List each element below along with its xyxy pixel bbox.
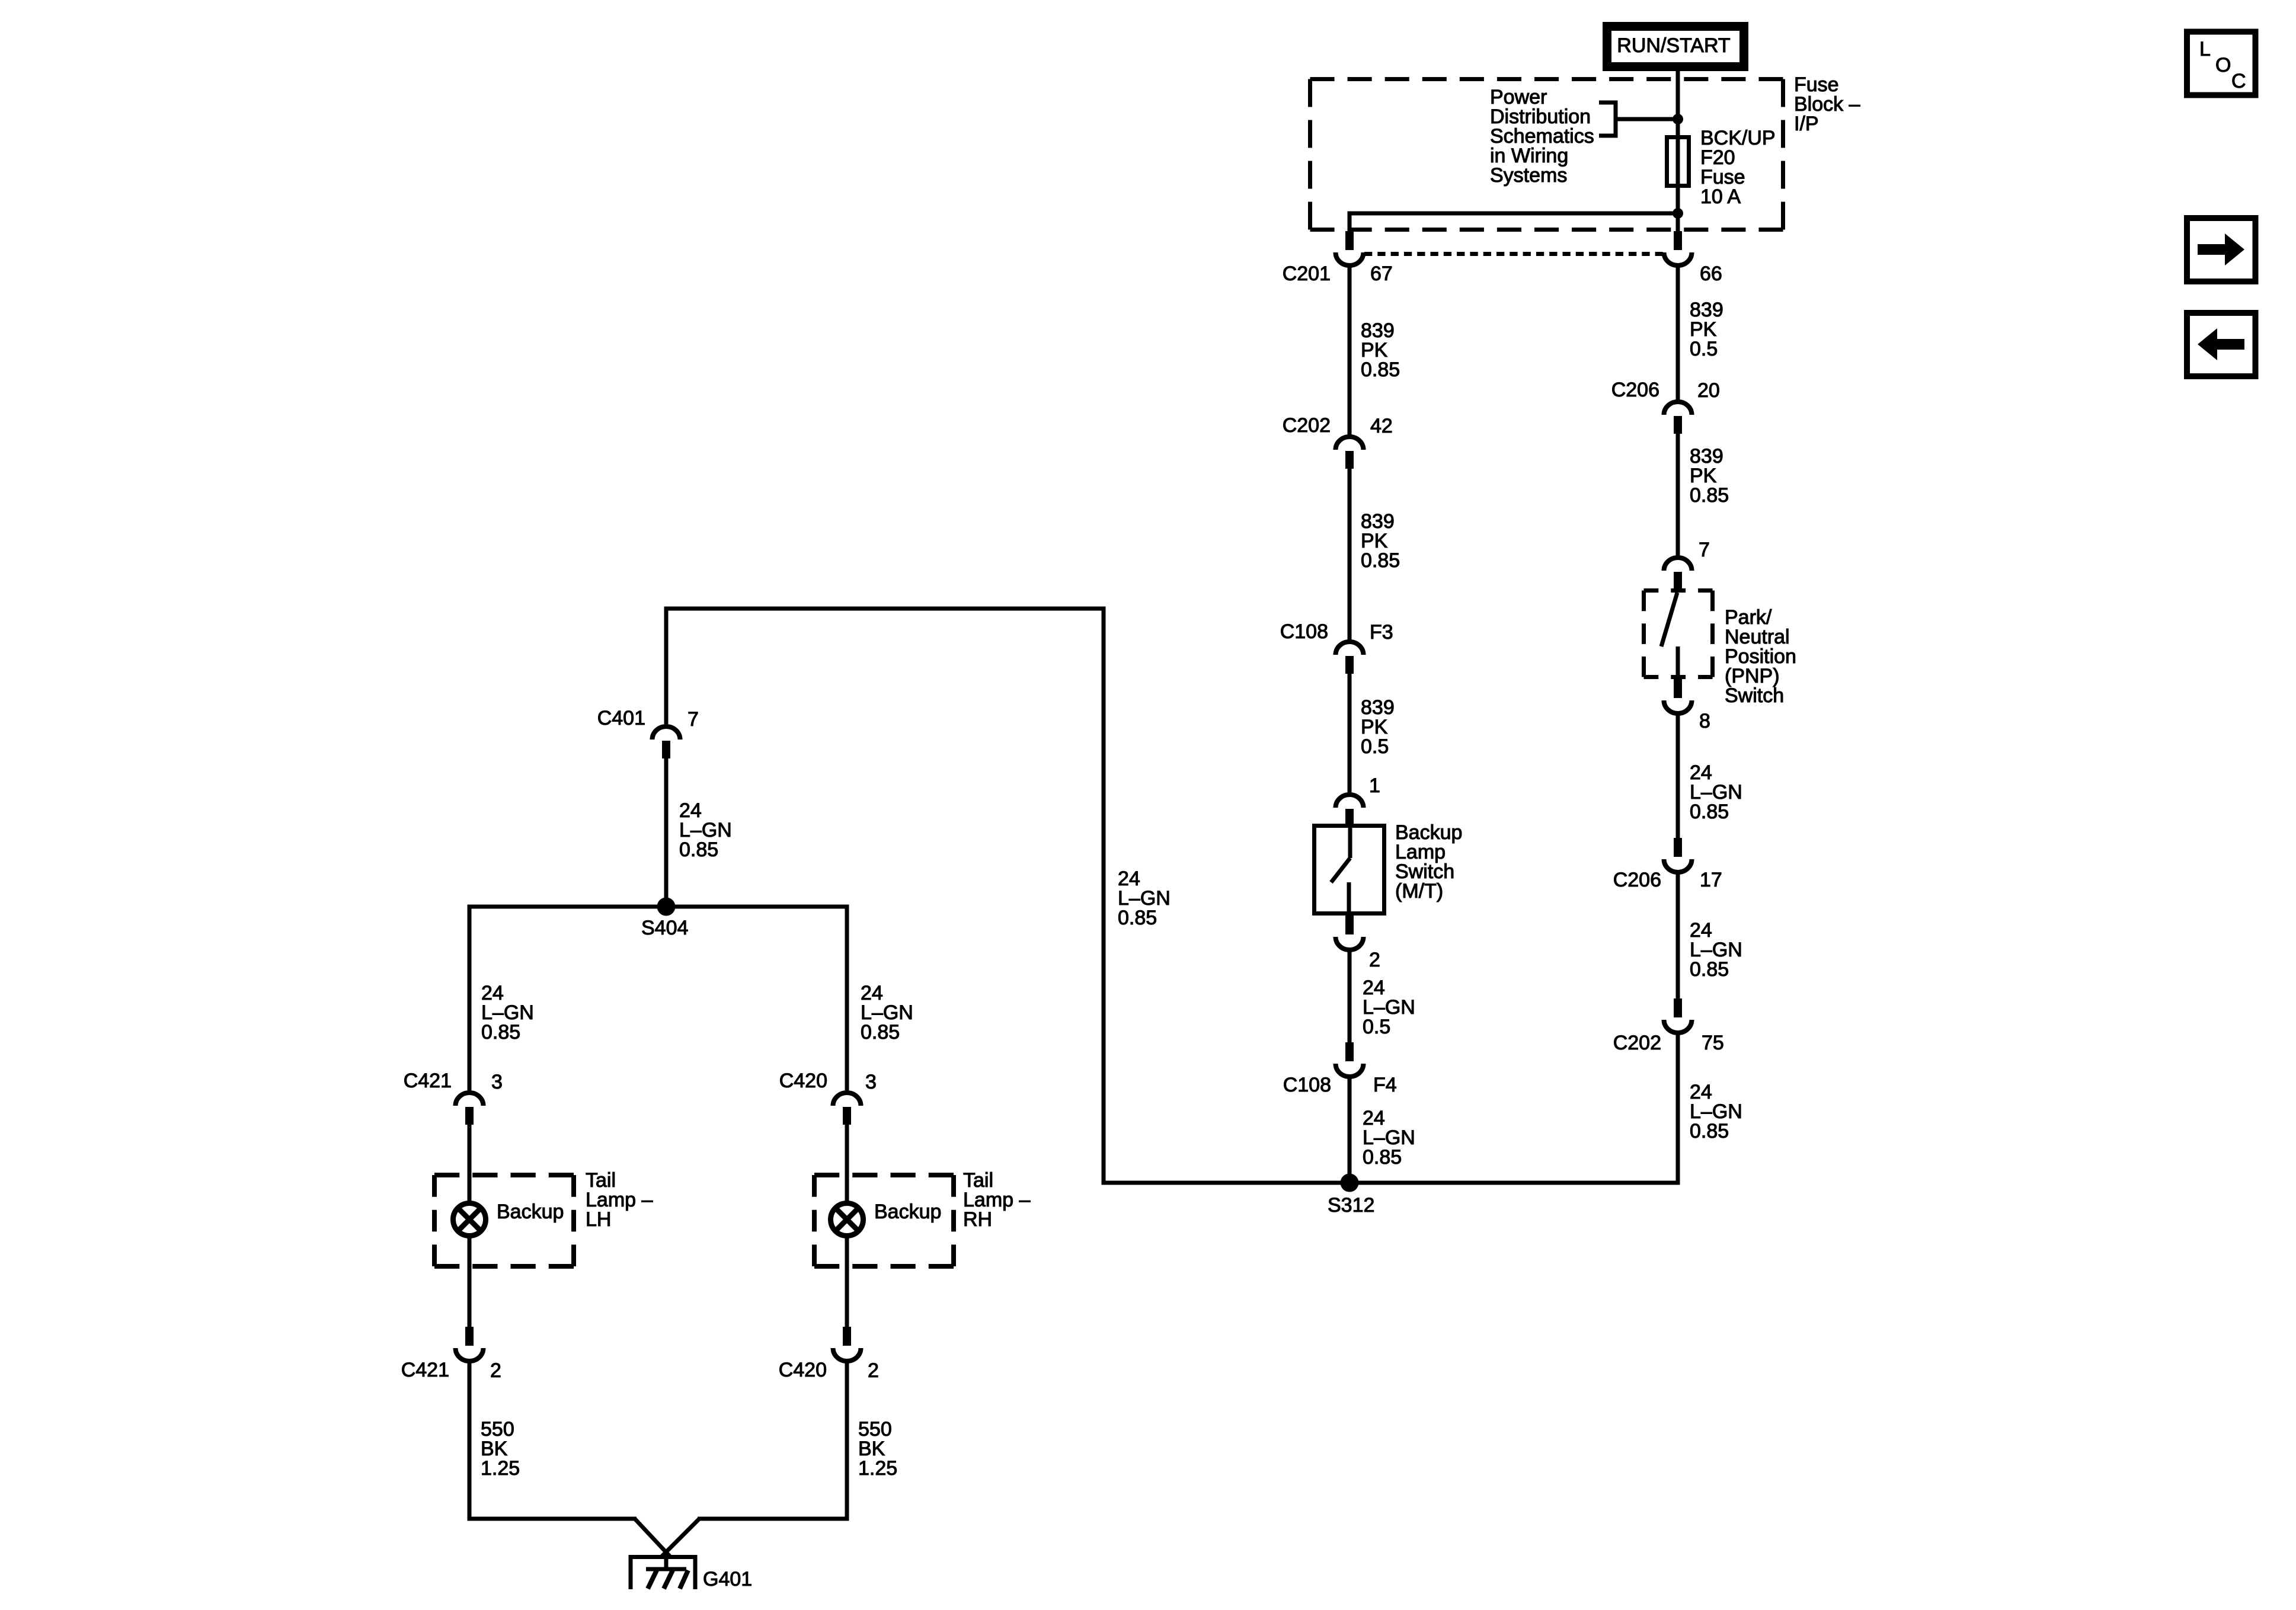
svg-text:10 A: 10 A [1700, 185, 1741, 208]
wire LH lamp to C421-2 [468, 1236, 472, 1327]
connector C108 pin F3 [1336, 642, 1364, 674]
wire label 839 PK 0.5 [1361, 696, 1395, 758]
wire to RH lamp [845, 1125, 849, 1203]
svg-text:20: 20 [1697, 379, 1720, 402]
Power Distribution Schematics note [1490, 86, 1594, 187]
lamp LH cross stroke 1 [458, 1208, 481, 1231]
connector C201 pin 67 [1336, 231, 1364, 265]
svg-text:Backup: Backup [497, 1201, 564, 1223]
svg-text:C421: C421 [404, 1070, 452, 1092]
connector C202 pin 42 [1336, 437, 1364, 469]
backup lamp switch box [1315, 826, 1384, 914]
svg-text:1.25: 1.25 [481, 1457, 520, 1480]
connector C421 pin 2 [456, 1327, 484, 1361]
connector PNP pin 8 [1664, 679, 1692, 713]
connector C201 pin 66 [1664, 231, 1692, 265]
tail lamp LH dashed box bottom edge [434, 1264, 574, 1269]
wire down to C401 [664, 609, 669, 724]
wire label 24 L-GN 0.85 [481, 982, 534, 1044]
ground hatch bar [646, 1567, 686, 1571]
connector C420 pin 2 [833, 1327, 861, 1361]
svg-text:F3: F3 [1370, 621, 1393, 644]
wire drop to C201 pin 67 [1348, 212, 1352, 232]
wire label 24 L-GN 0.85 [1690, 919, 1742, 981]
connector C206 pin 17 [1664, 838, 1692, 872]
junction dot at feed [1673, 114, 1683, 124]
svg-text:0.5: 0.5 [1361, 735, 1389, 758]
wire label 839 PK 0.85 [1361, 319, 1400, 381]
svg-text:0.5: 0.5 [1690, 338, 1718, 360]
wire label 839 PK 0.85 [1361, 510, 1400, 572]
wire from RUN/START down to fuse [1676, 71, 1680, 213]
LH diagonal to ground [635, 1519, 670, 1556]
connector C202 pin 75 [1664, 998, 1692, 1033]
svg-text:G401: G401 [703, 1568, 752, 1590]
wire to LH lamp [468, 1125, 472, 1203]
arrow box right [2187, 218, 2256, 281]
wire label 24 L-GN 0.85 [1690, 1081, 1742, 1142]
svg-text:LH: LH [586, 1208, 611, 1231]
wire fuse output horizontal [1350, 212, 1678, 216]
connector C206 pin 20 [1664, 402, 1692, 434]
PNP switch lower contact [1676, 646, 1680, 679]
wire 66 to C206-20 [1676, 263, 1680, 401]
wire 75 down to S312 run [1676, 1030, 1680, 1185]
svg-text:7: 7 [1699, 539, 1710, 561]
bottom LH horizontal wire [468, 1517, 637, 1521]
connector C420 pin 3 [833, 1093, 861, 1125]
LOC reference box [2187, 32, 2256, 95]
ground bracket right leg [693, 1555, 698, 1589]
wire label 839 PK 0.5 [1690, 299, 1723, 360]
ground center stub [664, 1555, 669, 1570]
svg-text:0.85: 0.85 [861, 1021, 900, 1044]
svg-text:O: O [2215, 54, 2231, 76]
connector C108 pin F4 [1336, 1042, 1364, 1077]
RUN/START ignition feed box [1607, 27, 1744, 67]
svg-text:C202: C202 [1613, 1032, 1661, 1054]
svg-text:C201: C201 [1283, 263, 1331, 285]
wire label 24 L-GN 0.85 [861, 982, 913, 1044]
wire label 839 PK 0.85 [1690, 445, 1729, 507]
Backup Lamp Switch label [1395, 821, 1462, 902]
svg-text:17: 17 [1700, 869, 1722, 891]
connector switch pin 1 [1336, 795, 1364, 827]
junction dot below fuse [1673, 208, 1683, 219]
arrow left glyph [2198, 328, 2244, 360]
connector C201 dotted tie line [1364, 252, 1663, 256]
fuse block dashed box right edge [1781, 79, 1785, 230]
wire F4 to S312 [1348, 1074, 1352, 1183]
svg-text:Switch: Switch [1725, 684, 1784, 707]
svg-text:2: 2 [1369, 949, 1380, 971]
fuse block dashed box left edge [1308, 79, 1312, 230]
svg-text:S404: S404 [641, 917, 688, 939]
svg-text:0.85: 0.85 [1690, 958, 1729, 981]
ground hatch stroke 2 [664, 1570, 673, 1589]
svg-text:S312: S312 [1328, 1194, 1374, 1217]
svg-text:66: 66 [1700, 263, 1722, 285]
svg-text:0.85: 0.85 [1690, 801, 1729, 823]
fuse block dashed box bottom edge [1310, 228, 1783, 232]
connector C421 pin 3 [456, 1093, 484, 1125]
lamp RH cross stroke 1 [836, 1208, 859, 1231]
fuse label BCK/UP F20 Fuse 10 A [1700, 127, 1776, 208]
connector switch pin 2 [1336, 916, 1364, 950]
svg-text:C108: C108 [1283, 1074, 1331, 1096]
wire bracket to feed [1616, 117, 1678, 121]
svg-text:1: 1 [1369, 774, 1380, 797]
svg-text:Systems: Systems [1490, 164, 1567, 187]
wire pin2 to C108-F4 [1348, 948, 1352, 1042]
lamp LH cross stroke 2 [458, 1208, 481, 1231]
lamp RH cross stroke 2 [836, 1208, 859, 1231]
wire C421-2 down [468, 1359, 472, 1521]
svg-text:0.85: 0.85 [1361, 359, 1400, 381]
wire drop to C201 pin 66 [1676, 213, 1680, 231]
ground G401 bracket top bar [629, 1555, 698, 1559]
svg-text:Backup: Backup [874, 1201, 941, 1223]
svg-text:RUN/START: RUN/START [1617, 34, 1730, 57]
svg-text:0.85: 0.85 [1363, 1146, 1402, 1169]
wire label 550 BK 1.25 [481, 1418, 520, 1480]
arrow right glyph [2198, 233, 2244, 265]
svg-text:42: 42 [1370, 415, 1393, 437]
svg-text:C421: C421 [401, 1359, 449, 1381]
wire 20 to PNP pin 7 [1676, 434, 1680, 556]
Fuse Block - I/P label [1794, 73, 1860, 135]
vertical wire mid link [1102, 607, 1106, 1185]
svg-text:RH: RH [963, 1208, 992, 1231]
S312 horizontal wire [1104, 1181, 1678, 1185]
fuse BCK/UP F20 [1667, 137, 1689, 186]
svg-text:C420: C420 [779, 1070, 827, 1092]
svg-text:C401: C401 [597, 707, 645, 729]
svg-text:2: 2 [490, 1359, 501, 1382]
svg-text:1.25: 1.25 [858, 1457, 897, 1480]
svg-text:C206: C206 [1613, 869, 1661, 891]
fuse block dashed box top edge [1310, 77, 1783, 81]
wire label 24 L-GN 0.85 [1690, 761, 1742, 823]
wire label 550 BK 1.25 [858, 1418, 897, 1480]
svg-text:3: 3 [491, 1071, 503, 1093]
svg-text:C202: C202 [1283, 414, 1331, 437]
svg-text:0.85: 0.85 [679, 838, 718, 861]
switch blade [1331, 858, 1350, 882]
svg-text:C206: C206 [1611, 379, 1659, 401]
S404 horizontal wire [468, 905, 849, 909]
tail lamp RH dashed box right edge [951, 1175, 956, 1266]
wire label 24 L-GN 0.85 [1118, 868, 1171, 929]
svg-text:0.85: 0.85 [481, 1021, 520, 1044]
label Tail Lamp - RH [963, 1169, 1030, 1231]
top horizontal wire [664, 607, 1106, 611]
tail lamp LH dashed box top edge [434, 1173, 574, 1177]
RH diagonal to ground [662, 1519, 699, 1556]
PNP switch dashed box left edge [1642, 591, 1646, 677]
Park/Neutral Position (PNP) Switch label [1725, 606, 1796, 707]
PNP switch dashed box bottom edge [1644, 675, 1713, 679]
svg-text:2: 2 [868, 1359, 879, 1382]
svg-text:(M/T): (M/T) [1395, 880, 1443, 902]
lamp Backup LH [453, 1204, 486, 1236]
bottom RH horizontal wire [698, 1517, 849, 1521]
ground bracket left leg [629, 1555, 633, 1589]
lamp Backup RH [831, 1204, 864, 1236]
label Tail Lamp - LH [586, 1169, 653, 1231]
switch upper contact [1348, 824, 1352, 858]
splice S404 dot [657, 898, 676, 916]
svg-text:C420: C420 [779, 1359, 827, 1381]
tail lamp RH dashed box bottom edge [814, 1264, 954, 1269]
svg-text:7: 7 [687, 708, 699, 731]
wire label 24 L-GN 0.85 [1363, 1107, 1415, 1169]
splice S312 dot [1341, 1174, 1359, 1192]
svg-text:L: L [2199, 38, 2211, 60]
switch lower contact [1347, 882, 1351, 916]
connector C401 pin 7 [653, 726, 680, 758]
PNP switch dashed box right edge [1710, 591, 1715, 677]
svg-text:I/P: I/P [1794, 113, 1819, 135]
arrow box left [2187, 313, 2256, 376]
tail lamp RH dashed box top edge [814, 1173, 954, 1177]
svg-text:C: C [2231, 70, 2246, 92]
wire RH lamp to C420-2 [845, 1236, 849, 1327]
connector PNP pin 7 [1664, 558, 1692, 590]
svg-text:0.85: 0.85 [1118, 907, 1157, 929]
tail lamp LH dashed box left edge [432, 1175, 437, 1266]
svg-text:C108: C108 [1280, 620, 1328, 643]
svg-text:0.5: 0.5 [1363, 1016, 1390, 1038]
wire C401 to S404 [664, 758, 669, 907]
svg-text:F4: F4 [1373, 1074, 1397, 1096]
svg-text:75: 75 [1702, 1032, 1724, 1054]
wire 42 to C108-F3 [1348, 469, 1352, 640]
wire S404 to C420-3 [845, 907, 849, 1090]
wire label 24 L-GN 0.85 [679, 799, 732, 861]
tail lamp LH dashed box right edge [571, 1175, 576, 1266]
wire F3 to switch pin 1 [1348, 674, 1352, 792]
wire S404 to C421-3 [468, 907, 472, 1090]
svg-text:0.85: 0.85 [1690, 1120, 1729, 1142]
svg-text:0.85: 0.85 [1690, 484, 1729, 507]
wire 67 to C202-42 [1348, 263, 1352, 437]
PNP switch blade [1661, 593, 1677, 646]
wire 8 to C206-17 [1676, 711, 1680, 839]
ground hatch stroke 3 [680, 1570, 688, 1589]
svg-text:3: 3 [865, 1071, 877, 1093]
svg-text:67: 67 [1370, 263, 1393, 285]
wire 17 to C202-75 [1676, 871, 1680, 1001]
wire C420-2 down [845, 1359, 849, 1521]
wire label 24 L-GN 0.5 [1363, 977, 1415, 1038]
tail lamp RH dashed box left edge [812, 1175, 817, 1266]
svg-text:8: 8 [1699, 710, 1710, 732]
svg-text:0.85: 0.85 [1361, 549, 1400, 572]
PNP switch dashed box top edge [1644, 588, 1713, 593]
ground hatch stroke 1 [648, 1570, 657, 1589]
bracket from note [1599, 103, 1616, 136]
